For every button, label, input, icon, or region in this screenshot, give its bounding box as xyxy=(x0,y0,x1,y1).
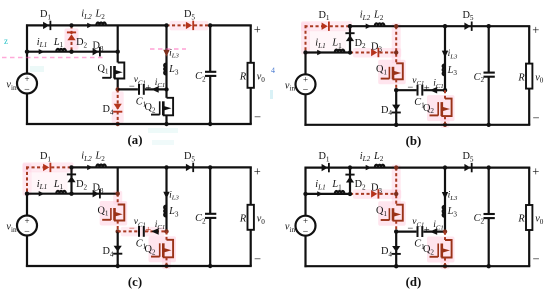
wire: node to Q2 xyxy=(165,89,167,97)
node: L3 top xyxy=(164,165,168,169)
diode D4 xyxy=(392,246,400,252)
diode D1 xyxy=(322,23,328,30)
inductor L1 xyxy=(335,191,345,194)
transistor Q1 xyxy=(114,63,124,79)
svg-text:−: − xyxy=(407,82,413,93)
wire: node to C1 left plate xyxy=(396,231,416,233)
diode D3 xyxy=(93,48,99,55)
highlight halo: switch Q2 xyxy=(149,236,177,262)
wire: left vertical top segment (conducting, dashed red) xyxy=(305,25,307,52)
node: D4 bottom xyxy=(394,123,398,127)
current arrow iL2 xyxy=(87,23,93,28)
highlight halo: D5 path xyxy=(170,21,209,31)
current arrow iC1 xyxy=(151,228,159,235)
diode branch D2 wire xyxy=(70,167,72,193)
wire: top segment C2 node to output corner xyxy=(210,166,252,168)
wire: top segment C2 node to output corner xyxy=(210,24,252,26)
node: Q1 branch top (red) xyxy=(394,24,398,28)
highlight halo: D3 path xyxy=(353,48,401,58)
wire: left vertical source to second-wire tap xyxy=(304,194,306,216)
highlight halo: switch Q1 xyxy=(378,60,406,85)
wire: top segment C2 node to output corner xyxy=(489,25,531,27)
current arrow iC1 xyxy=(151,86,159,93)
wire: Q2 to bottom (conducting, dashed red) xyxy=(444,116,446,125)
wire: Q1 branch upper (conducting, dashed red) xyxy=(395,26,397,63)
transistor Q2 xyxy=(441,99,451,117)
wire: Q1 source to node (conducting, dashed red) xyxy=(117,221,119,232)
node: second wire tap xyxy=(25,50,29,54)
node: D2 bottom xyxy=(348,50,352,54)
wire: left vertical below source xyxy=(26,94,28,126)
node: D2 top xyxy=(348,24,352,28)
transistor Q2 xyxy=(163,98,173,116)
highlight halo: input loop xyxy=(301,21,352,31)
diode D4 xyxy=(392,105,400,111)
wire: left vertical top segment xyxy=(26,24,28,51)
wire: Q2 to bottom (conducting, dashed red) xyxy=(166,257,168,266)
node: second wire tap xyxy=(303,192,307,196)
diode D5 xyxy=(464,164,470,171)
node: Q1 branch / D3 xyxy=(116,50,120,54)
highlight halo: diode D2 xyxy=(65,28,79,49)
current arrow iL1 xyxy=(39,49,45,54)
wire: Q1 branch upper xyxy=(117,167,119,193)
wire: second wire with L1 xyxy=(306,193,351,195)
svg-text:−: − xyxy=(532,111,539,125)
wire: top, D2 node to L3 node xyxy=(350,166,445,168)
diode branch D2 (conducting, dashed red) xyxy=(71,25,73,51)
node: L3 top xyxy=(443,24,447,28)
sub-circuit (c) operating mode xyxy=(6,151,265,289)
wire: bottom rail xyxy=(26,265,252,267)
wire: second wire through D3 xyxy=(72,51,118,53)
wire: left vertical top segment xyxy=(304,167,306,194)
diode D1 xyxy=(43,22,49,29)
inductor L3 xyxy=(443,206,445,217)
node: Q1/C1/D4 junction xyxy=(394,88,398,92)
diode D3 xyxy=(93,190,99,197)
node: C2 top xyxy=(487,165,491,169)
wire: second wire with L1 xyxy=(27,51,72,53)
node: L3 top xyxy=(443,165,447,169)
node: C1/L3/Q2 junction xyxy=(164,87,168,91)
wire: left vertical below source xyxy=(304,236,306,268)
inductor L2 xyxy=(375,23,385,26)
wire: right vertical through R xyxy=(250,167,252,204)
current arrow iC1 xyxy=(430,228,438,235)
wire: Q1 source to node (conducting, dashed red) xyxy=(395,79,397,90)
current arrow iL1 xyxy=(317,50,323,55)
wire: left vertical below source xyxy=(26,236,28,268)
transistor Q1 xyxy=(393,205,403,221)
voltage source Vin xyxy=(17,216,37,236)
svg-text:z: z xyxy=(4,36,8,46)
diode branch D2 wire xyxy=(349,168,351,194)
wire: top-left segment to D1 (conducting, dashed red) xyxy=(26,166,44,168)
svg-text:−: − xyxy=(254,252,261,266)
node: L3 top xyxy=(164,23,168,27)
node: C1/L3/Q2 junction xyxy=(443,229,447,233)
capacitor C1 xyxy=(138,226,140,237)
node: C2 bottom xyxy=(208,264,212,268)
wire: top segment through D5 (conducting, dashed red) xyxy=(167,24,186,26)
wire: node to C1 left plate (conducting, dashed red) xyxy=(118,230,138,232)
inductor L3 xyxy=(164,64,166,75)
node: D2 top xyxy=(69,165,73,169)
node: C2 bottom xyxy=(208,122,212,126)
voltage source Vin xyxy=(296,216,316,236)
wire: top, D2 node to L3 node xyxy=(350,25,445,27)
resistor R xyxy=(526,205,532,230)
node: C2 top xyxy=(208,23,212,27)
inductor L3 xyxy=(443,64,445,75)
node: D2 top xyxy=(69,23,73,27)
wire: second wire with L1 xyxy=(306,51,351,53)
diode D1 xyxy=(322,164,328,171)
wire: L3 branch vertical xyxy=(444,26,446,90)
highlight halo: switch Q2 xyxy=(427,95,455,121)
diode D3 xyxy=(371,49,377,56)
node: C1/L3/Q2 junction xyxy=(443,88,447,92)
highlight halo: C1 path xyxy=(121,227,165,237)
wire: Q1 branch upper xyxy=(117,25,119,62)
inductor L2 xyxy=(375,165,385,168)
svg-text:−: − xyxy=(129,224,135,235)
wire: right vertical through R xyxy=(250,25,252,62)
wire: C1 right plate to node xyxy=(145,88,167,90)
svg-text:(c): (c) xyxy=(128,275,142,289)
wire: Q1 branch to switch (conducting, dashed red) xyxy=(117,194,119,205)
node: Q1/C1/D4 junction xyxy=(116,87,120,91)
voltage source Vin xyxy=(17,74,37,94)
sub-circuit (d) operating mode xyxy=(285,151,544,289)
capacitor C1 xyxy=(417,226,419,237)
highlight halo: D4 path xyxy=(112,91,124,123)
svg-text:+: + xyxy=(254,22,261,36)
resistor R xyxy=(248,63,254,88)
svg-text:+: + xyxy=(532,23,539,37)
node: D2 bottom xyxy=(69,50,73,54)
node: second wire tap xyxy=(25,192,29,196)
node: Q2 bottom (red) xyxy=(443,123,447,127)
diode D5 xyxy=(186,22,192,29)
wire: left vertical source to second-wire tap xyxy=(26,52,28,74)
diode D3 xyxy=(371,190,377,197)
diode branch D4 wire xyxy=(395,232,397,267)
node: C2 bottom xyxy=(487,123,491,127)
wire: Q1 branch upper (conducting, dashed red) xyxy=(395,168,397,205)
wire: bottom rail xyxy=(26,123,252,125)
svg-text:+: + xyxy=(424,84,430,95)
wire: L3 branch vertical xyxy=(165,167,167,231)
diode D5 xyxy=(464,23,470,30)
svg-text:+: + xyxy=(303,75,308,85)
diode D2 xyxy=(67,176,75,182)
diode D4 xyxy=(114,246,122,252)
wire: bottom rail xyxy=(304,124,530,126)
svg-text:+: + xyxy=(532,165,539,179)
wire: node to Q2 (conducting, dashed red) xyxy=(444,232,446,240)
wire: Q2 to bottom (conducting, dashed red) xyxy=(444,258,446,267)
wire: top segment through D5 xyxy=(445,166,489,168)
wire: right vertical through R xyxy=(528,26,530,63)
svg-text:+: + xyxy=(254,164,261,178)
wire: L3 branch vertical xyxy=(444,168,446,232)
diode D5 xyxy=(186,164,192,171)
resistor R xyxy=(248,205,254,230)
inductor L1 xyxy=(56,49,66,52)
resistor R xyxy=(526,64,532,89)
node: second wire tap xyxy=(303,50,307,54)
svg-text:+: + xyxy=(424,225,430,236)
node: Q1/C1/D4 junction xyxy=(116,229,120,233)
transistor Q1 xyxy=(114,205,124,221)
wire: node to Q2 (conducting, dashed red) xyxy=(166,231,168,239)
node: C1/L3/Q2 junction xyxy=(164,229,168,233)
wire: C1 right plate to node xyxy=(423,231,445,233)
current arrow iL3 xyxy=(442,192,448,199)
artifact marks xyxy=(2,36,275,145)
wire: left vertical source to second-wire tap xyxy=(304,53,306,75)
wire: top-left segment through D1 xyxy=(305,166,351,168)
node: Q1/C1/D4 junction xyxy=(394,229,398,233)
capacitor branch C2 xyxy=(209,167,211,213)
node: D4 bottom xyxy=(116,122,120,126)
transistor Q1 xyxy=(393,63,403,79)
wire: C1 right plate to node (conducting, dashed red) xyxy=(145,230,167,232)
wire: top, D2 node to L3 node xyxy=(72,166,167,168)
svg-text:+: + xyxy=(24,216,29,226)
node: D2 top xyxy=(348,165,352,169)
node: C2 top xyxy=(487,24,491,28)
diode D4 xyxy=(114,104,122,110)
current arrow iL3 xyxy=(163,50,169,57)
node: Q1 branch / D3 (red) xyxy=(394,50,398,54)
sub-circuit (a) operating mode xyxy=(6,9,265,147)
svg-text:+: + xyxy=(145,225,151,236)
transistor Q2 xyxy=(441,240,451,258)
wire: second wire with L1 xyxy=(27,193,72,195)
current arrow iL2 xyxy=(366,24,372,29)
wire: node to C1 left plate xyxy=(118,88,138,90)
wire: second wire through D3 xyxy=(72,193,118,195)
current arrow iL1 xyxy=(39,191,45,196)
svg-text:+: + xyxy=(24,74,29,84)
inductor L1 xyxy=(335,50,345,53)
current arrow iC1 xyxy=(430,87,438,94)
wire: top segment through D5 xyxy=(167,166,211,168)
wire: top-left segment to D1 (conducting, dashed red) xyxy=(305,25,323,27)
node: C2 top xyxy=(208,165,212,169)
inductor L2 xyxy=(96,23,106,26)
node: D2 bottom xyxy=(348,192,352,196)
current arrow iL3 xyxy=(442,51,448,58)
capacitor branch C2 xyxy=(488,26,490,72)
wire: top segment C2 node to output corner xyxy=(489,166,531,168)
wire: node to C1 left plate xyxy=(396,89,416,91)
diode D2 xyxy=(346,177,354,183)
highlight halo: switch Q1 xyxy=(378,201,406,226)
node: D2 bottom xyxy=(69,192,73,196)
current arrow iL3 xyxy=(163,192,169,199)
svg-text:R: R xyxy=(239,72,247,83)
wire: left vertical below source xyxy=(304,94,306,126)
wire: D1 to node (conducting, dashed red) xyxy=(330,25,350,27)
svg-text:−: − xyxy=(129,82,135,93)
wire: top segment through D5 xyxy=(445,25,489,27)
svg-text:(a): (a) xyxy=(128,133,143,147)
svg-text:+: + xyxy=(145,83,151,94)
wire: left vertical top segment (conducting, dashed red) xyxy=(26,166,28,193)
capacitor branch C2 xyxy=(209,25,211,71)
inductor L1 xyxy=(56,191,66,194)
wire: Q1 source to node (conducting, dashed red) xyxy=(395,221,397,232)
diode branch D2 wire xyxy=(349,26,351,52)
wire: left vertical source to second-wire tap xyxy=(26,194,28,216)
wire: L3 branch vertical xyxy=(165,25,167,89)
diode branch D4 wire xyxy=(117,231,119,266)
wire: D1 to node (conducting, dashed red) xyxy=(51,166,71,168)
svg-text:(d): (d) xyxy=(406,275,422,289)
voltage source Vin xyxy=(296,74,316,94)
diode D1 xyxy=(43,164,49,171)
node: D4 bottom xyxy=(394,264,398,268)
capacitor C1 xyxy=(138,84,140,95)
svg-text:4: 4 xyxy=(271,66,275,75)
capacitor C1 xyxy=(417,85,419,96)
svg-text:−: − xyxy=(532,252,539,266)
inductor L3 xyxy=(164,206,166,217)
wire: second wire through D3 (conducting, dashed red) xyxy=(350,52,371,54)
svg-text:R: R xyxy=(239,214,247,225)
capacitor branch C2 xyxy=(488,168,490,214)
highlight halo: switch Q2 xyxy=(427,237,455,263)
svg-text:−: − xyxy=(407,224,413,235)
node: Q2 bottom (red) xyxy=(164,264,168,268)
node: C2 bottom xyxy=(487,264,491,268)
inductor L2 xyxy=(96,165,106,168)
svg-text:R: R xyxy=(517,214,525,225)
highlight halo: D3 path xyxy=(353,189,401,199)
node: Q1 branch top (red) xyxy=(394,165,398,169)
wire: C1 right plate to node xyxy=(423,89,445,91)
wire: top-left segment through D1 xyxy=(26,24,72,26)
wire: top, D2 node to L3 node xyxy=(72,24,167,26)
diode branch D4 wire xyxy=(395,90,397,125)
highlight halo: input loop xyxy=(23,162,74,172)
wire: right vertical through R xyxy=(528,168,530,205)
svg-text:R: R xyxy=(517,72,525,83)
diode D2 xyxy=(346,35,354,41)
current arrow iL2 xyxy=(366,165,372,170)
node: Q2 bottom (red) xyxy=(443,264,447,268)
wire: second wire through D3 (conducting, dashed red) xyxy=(350,193,371,195)
wire: Q1 source to node xyxy=(117,79,119,90)
current arrow iL1 xyxy=(317,191,323,196)
highlight halo: switch Q1 xyxy=(100,201,128,226)
transistor Q2 xyxy=(163,240,173,257)
wire: bottom rail xyxy=(304,265,530,267)
sub-circuit (b) operating mode xyxy=(285,9,544,147)
node: Q1 branch / D3 (red) xyxy=(116,192,120,196)
diode D2 xyxy=(67,34,75,40)
current arrow iL2 xyxy=(87,165,93,170)
diode branch D4 (conducting, dashed red) xyxy=(117,89,119,124)
node: Q1 branch / D3 (red) xyxy=(394,192,398,196)
svg-text:−: − xyxy=(254,110,261,124)
wire: Q2 to bottom xyxy=(165,115,167,124)
svg-text:(b): (b) xyxy=(406,134,422,148)
node: D4 bottom xyxy=(116,264,120,268)
wire: node to Q2 (conducting, dashed red) xyxy=(444,90,446,98)
node: Q2 bottom xyxy=(164,122,168,126)
svg-text:+: + xyxy=(303,216,308,226)
